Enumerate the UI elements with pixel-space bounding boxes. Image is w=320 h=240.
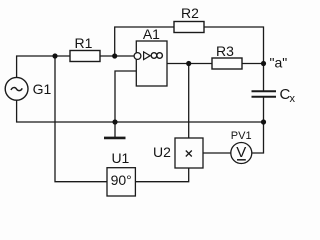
svg-text:A1: A1 [143, 26, 160, 42]
node junction A1 output [186, 61, 191, 66]
op-amp A1 [134, 26, 167, 86]
wire R1 right to A1 input [100, 55, 134, 57]
wire Cx down to bottom rail [263, 98, 265, 123]
wire G1 top to R1 [17, 56, 70, 77]
resistor R1 [70, 35, 100, 62]
wire U2 to PV1 [203, 152, 231, 154]
svg-text:x: x [290, 93, 296, 105]
svg-text:R2: R2 [181, 5, 199, 21]
svg-text:U2: U2 [153, 144, 171, 160]
node rail right junction [261, 119, 266, 124]
svg-text:U1: U1 [111, 150, 129, 166]
wire node a down to Cx [263, 64, 265, 91]
svg-text:"a": "a" [270, 55, 288, 71]
svg-text:G1: G1 [33, 81, 52, 97]
wire R2 right to node a [204, 27, 264, 64]
wire A1 output to R3 [167, 63, 212, 65]
wire output node down to U2 [188, 64, 190, 139]
wire U1 to U2 bottom [135, 168, 188, 182]
voltmeter PV1 [231, 130, 252, 164]
wire PV1 to rail end [252, 122, 264, 153]
resistor R3 [212, 43, 242, 69]
resistor R2 [174, 5, 204, 33]
wire R2 left branch [115, 27, 174, 56]
svg-text:PV1: PV1 [231, 130, 252, 142]
generator G1 [5, 77, 51, 100]
wire node in down to U1 [55, 56, 107, 182]
node a junction [261, 61, 266, 66]
capacitor Cx [252, 86, 296, 105]
wire R3 right to node a [242, 63, 264, 65]
phase shifter U1 [107, 150, 135, 196]
wire G1 bottom to rail [17, 100, 264, 122]
multiplier U2 [153, 138, 203, 168]
node junction A1 input [112, 53, 117, 58]
svg-text:V: V [236, 144, 246, 161]
svg-text:90°: 90° [111, 172, 132, 188]
svg-text:R1: R1 [75, 35, 93, 51]
node junction before R1 [52, 53, 57, 58]
ground [104, 122, 126, 138]
svg-text:R3: R3 [216, 43, 234, 59]
wire A1 + input to ground [115, 71, 136, 122]
node ground junction [112, 119, 117, 124]
